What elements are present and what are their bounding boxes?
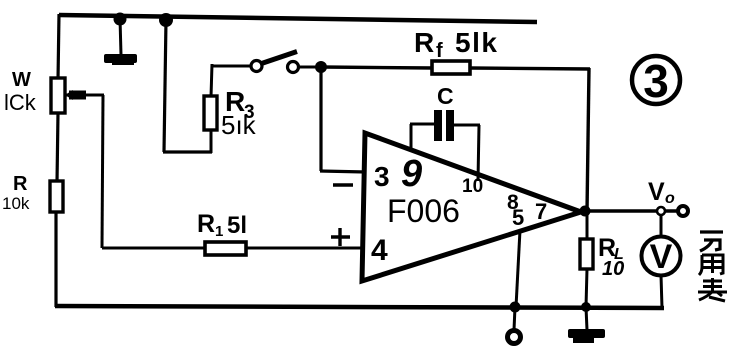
switch S1 bbox=[251, 52, 299, 73]
wire R3 top stub bbox=[211, 64, 212, 97]
wire left rail middle segment bbox=[57, 113, 58, 183]
svg-text:9: 9 bbox=[401, 153, 422, 195]
svg-text:3: 3 bbox=[643, 55, 669, 107]
label multimeter chinese wan bbox=[700, 232, 723, 251]
wire stub to offset terminal bbox=[514, 307, 515, 330]
wire voltmeter top stub bbox=[660, 214, 663, 237]
wire from R3 to switch bbox=[211, 65, 251, 68]
terminal offset null bbox=[508, 331, 521, 344]
svg-text:V: V bbox=[650, 238, 673, 276]
svg-text:F006: F006 bbox=[387, 193, 460, 229]
wire pin 5 down bbox=[516, 230, 520, 307]
wire horizontal to R3 bottom bbox=[163, 150, 212, 153]
wire left rail upper segment bbox=[58, 14, 59, 80]
wire output to Vo terminal bbox=[581, 209, 677, 212]
resistor R 10k bbox=[2, 173, 63, 213]
label multimeter chinese yong bbox=[699, 255, 723, 275]
figure number 3 badge bbox=[632, 55, 680, 107]
wire inverting branch into pin 3 bbox=[320, 171, 366, 172]
wire stub to bottom ground bbox=[586, 307, 587, 330]
wire noninverting branch vertical from wiper bbox=[102, 95, 103, 248]
svg-text:5ık: 5ık bbox=[221, 110, 257, 140]
wire RL top stub bbox=[586, 213, 589, 241]
wire R3 bottom stub bbox=[210, 129, 213, 153]
svg-text:o: o bbox=[665, 190, 675, 207]
node output junction bbox=[580, 206, 591, 217]
svg-text:f: f bbox=[436, 40, 443, 62]
resistor Rf 51k bbox=[414, 27, 498, 74]
wire RL bottom stub bbox=[586, 269, 587, 307]
resistor R1 51 bbox=[197, 210, 247, 255]
svg-text:10: 10 bbox=[602, 258, 624, 280]
node summing junction bbox=[315, 61, 327, 73]
node small loop at voltmeter tap bbox=[657, 207, 665, 215]
svg-text:5l: 5l bbox=[227, 212, 247, 239]
wire left rail lower segment bbox=[54, 212, 57, 307]
wire feedback to Rf bbox=[321, 67, 433, 68]
potentiometer W 10k bbox=[4, 69, 86, 115]
wire Rf to right rail bbox=[470, 68, 590, 69]
terminal Vo bbox=[648, 178, 688, 216]
wire middle vertical from top rail down bbox=[164, 20, 166, 152]
svg-text:lCk: lCk bbox=[4, 90, 37, 115]
wire wiper tap of W bbox=[66, 94, 104, 97]
svg-text:3: 3 bbox=[374, 161, 390, 192]
node RL bottom junction bbox=[581, 302, 591, 312]
svg-text:4: 4 bbox=[371, 234, 388, 267]
wire right feedback rail down to output node bbox=[587, 68, 589, 212]
node junction on top rail at ground stub bbox=[114, 13, 127, 26]
ground top bbox=[104, 54, 137, 65]
resistor R3 51k bbox=[204, 86, 257, 140]
wire R1 to pin 4 bbox=[246, 247, 364, 250]
wire stub from top rail to ground bbox=[120, 18, 121, 55]
wire noninverting branch to R1 bbox=[102, 247, 206, 250]
svg-text:10: 10 bbox=[462, 176, 483, 197]
node junction on top rail feeding R3 branch bbox=[159, 13, 173, 27]
wire top supply rail bbox=[59, 15, 537, 22]
wire bottom rail bbox=[55, 306, 664, 308]
wire voltmeter bottom stub bbox=[661, 275, 662, 308]
svg-text:R: R bbox=[197, 210, 215, 238]
svg-text:R: R bbox=[414, 27, 434, 58]
svg-text:V: V bbox=[648, 178, 665, 206]
node pin5 bottom junction bbox=[510, 302, 521, 313]
plus input sign bbox=[331, 228, 350, 246]
capacitor C bbox=[410, 83, 480, 181]
svg-text:10k: 10k bbox=[2, 194, 30, 213]
resistor RL 10 bbox=[580, 234, 624, 280]
label multimeter chinese biao bbox=[698, 278, 727, 301]
voltmeter V bbox=[642, 237, 681, 277]
ground bottom bbox=[568, 329, 605, 343]
wire from switch to summing node bbox=[299, 66, 320, 69]
minus input sign bbox=[333, 183, 353, 187]
wire inverting branch vertical bbox=[319, 67, 322, 171]
svg-text:C: C bbox=[437, 83, 454, 109]
svg-text:7: 7 bbox=[535, 199, 547, 224]
op-amp U1 F006 bbox=[362, 133, 581, 281]
svg-text:R: R bbox=[13, 173, 28, 195]
svg-text:5: 5 bbox=[512, 205, 524, 230]
svg-text:1: 1 bbox=[215, 223, 223, 240]
svg-text:W: W bbox=[12, 69, 31, 91]
svg-text:5lk: 5lk bbox=[455, 27, 498, 58]
